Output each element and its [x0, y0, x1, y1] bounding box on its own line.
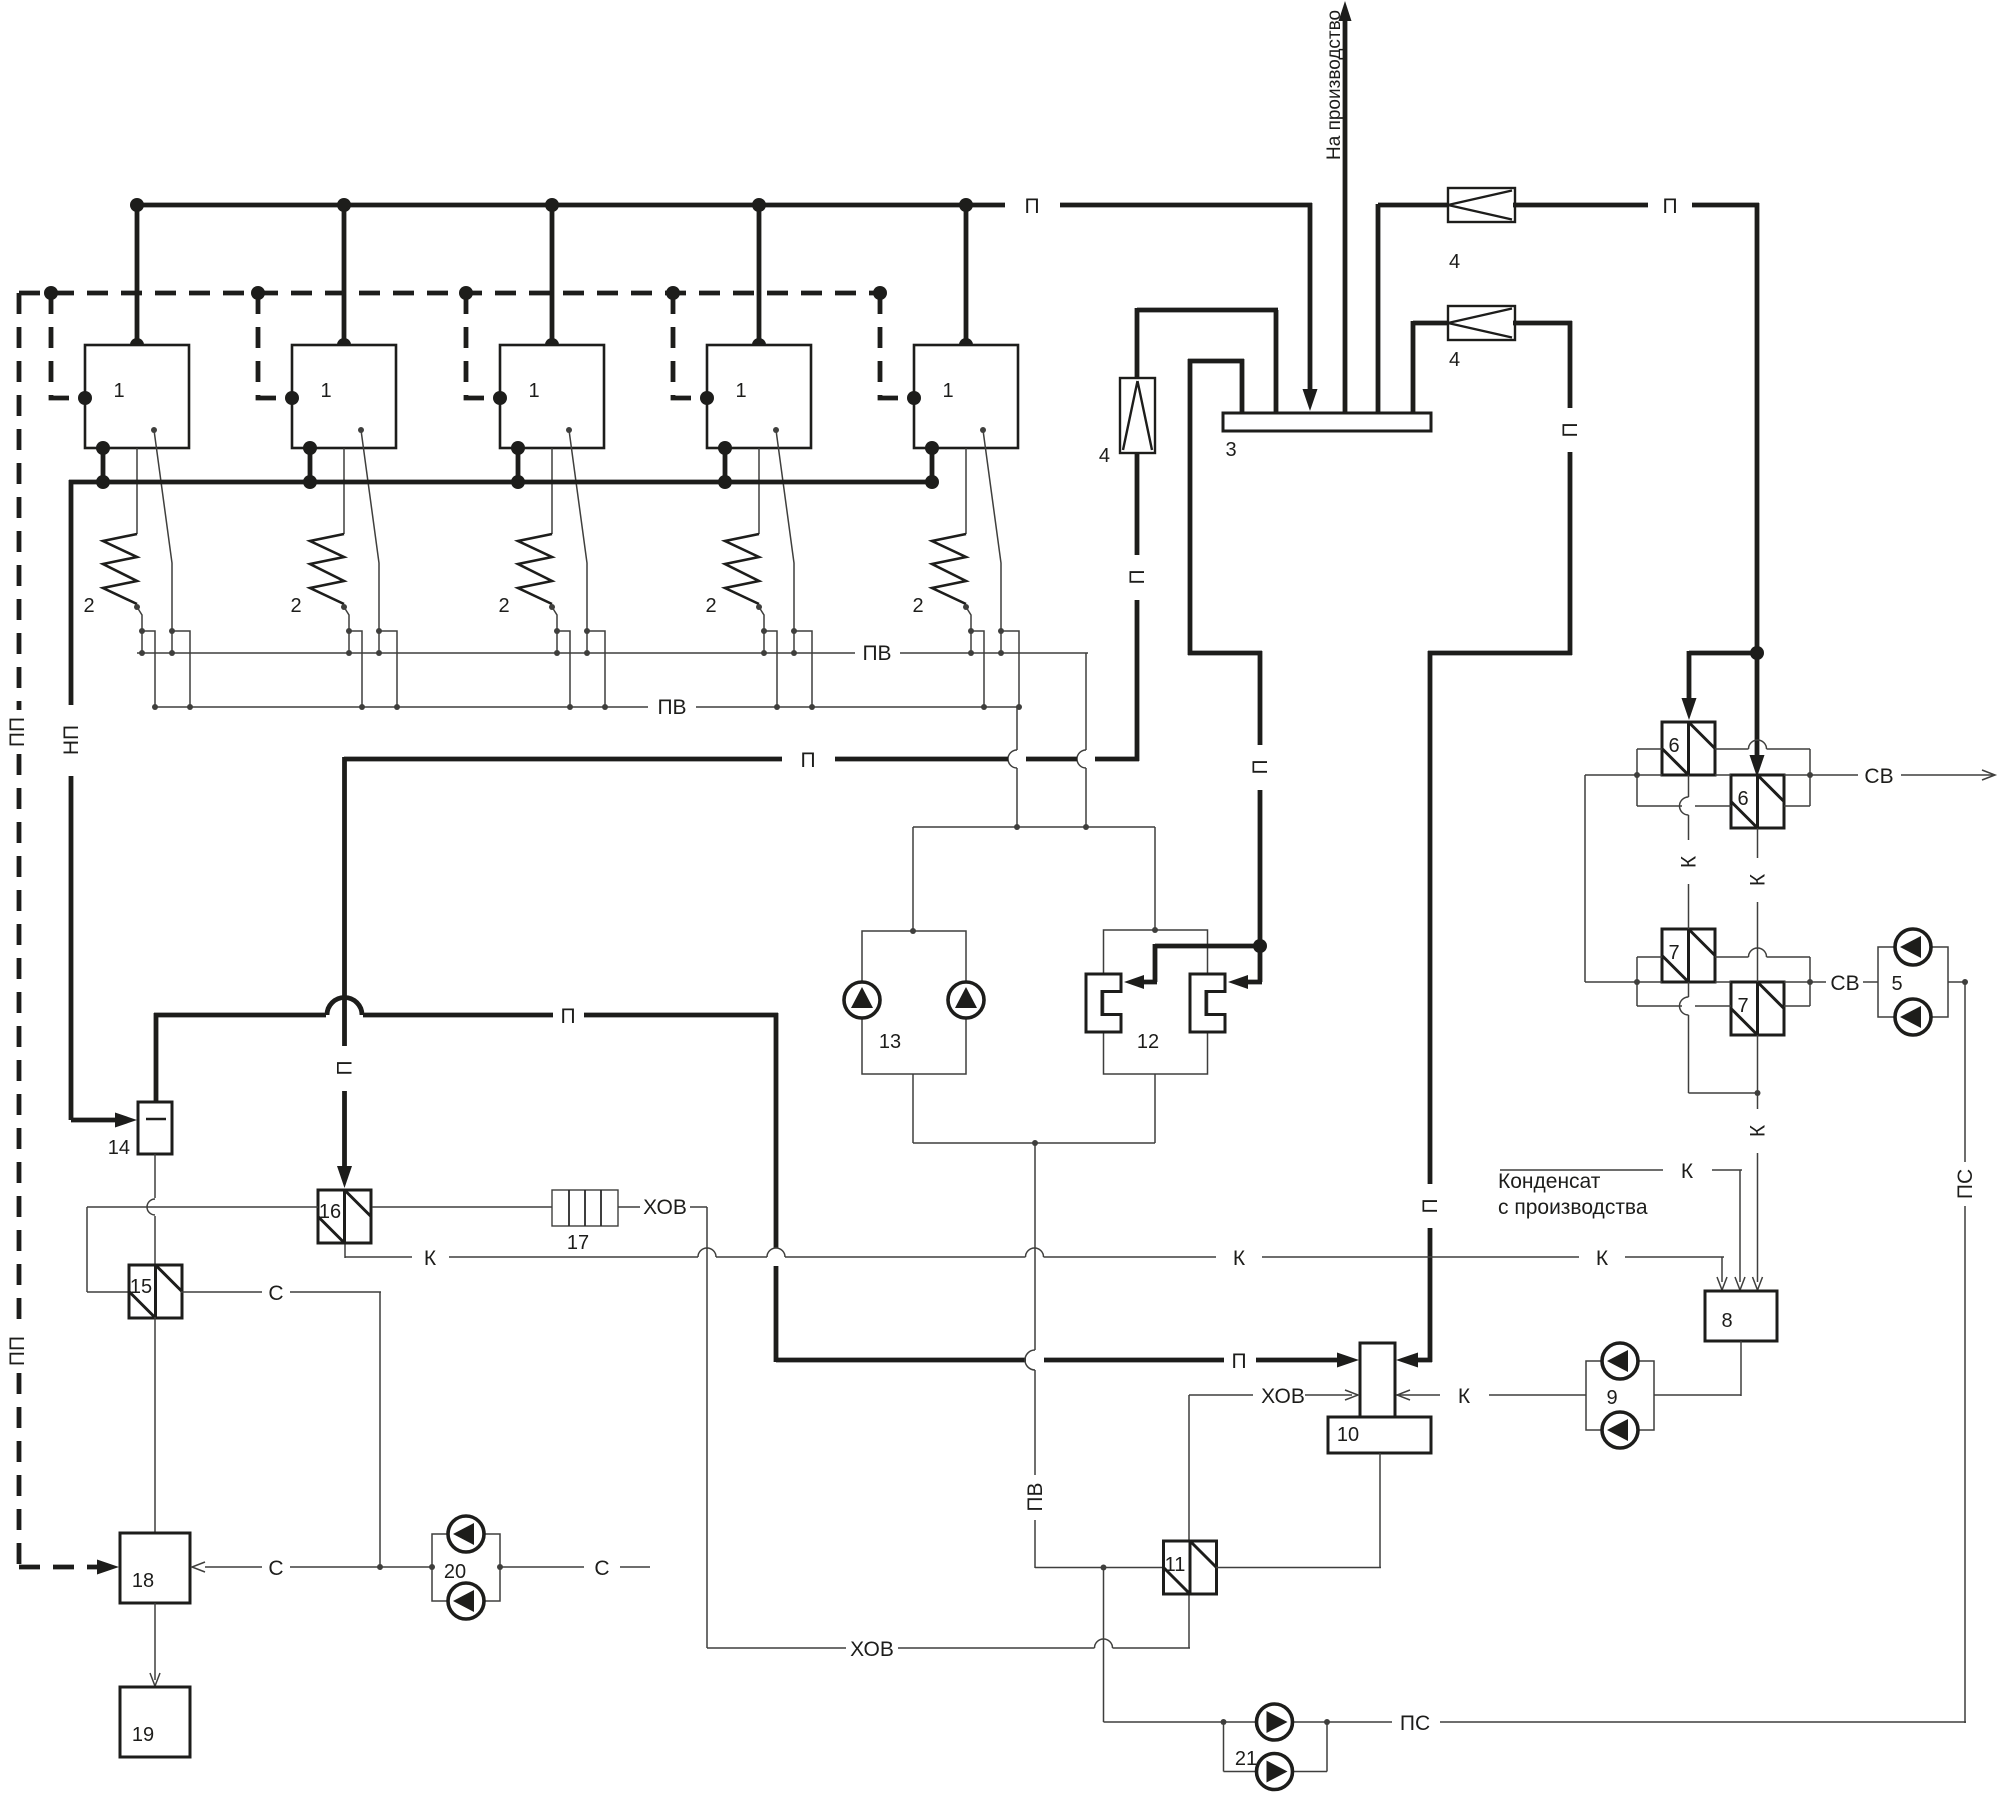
economizer 3 outlet wire	[552, 607, 557, 631]
boiler 3 feed line wire	[551, 448, 553, 534]
dots on PP branch boiler 4	[666, 286, 680, 300]
K main drop wire	[1721, 1257, 1723, 1282]
svg-text:4: 4	[1099, 445, 1110, 467]
boiler 4 cluster nodes	[761, 628, 767, 634]
node P branch	[1750, 646, 1764, 660]
pump 21 upper	[1257, 1704, 1293, 1740]
lower PV drop wire	[1016, 707, 1018, 750]
economizer 4 outlet node	[756, 604, 762, 610]
dots boiler 5 bottom stub	[925, 441, 939, 455]
pump 13 left	[844, 982, 880, 1018]
hop XOV over PS branch	[1095, 1639, 1113, 1648]
deaerator column 10	[1328, 1343, 1431, 1453]
wire 16 condensate to 15	[86, 1207, 88, 1292]
condensate tank 8	[1705, 1291, 1777, 1341]
svg-text:П: П	[1559, 422, 1582, 437]
boiler 1 PP dashed branch wire	[51, 293, 83, 398]
svg-text:На производство: На производство	[1324, 10, 1345, 160]
XOV riser wire	[1189, 1394, 1253, 1396]
blowdown tank 18	[120, 1533, 190, 1603]
svg-text:ПС: ПС	[1400, 1712, 1430, 1735]
junction dots boiler 2 riser	[337, 198, 351, 212]
NP blowdown drop wire	[69, 480, 74, 705]
node C join	[377, 1564, 383, 1570]
row7 left loop wire	[1636, 957, 1638, 1006]
svg-text:П: П	[1231, 1350, 1246, 1373]
hop K over XOV	[698, 1248, 716, 1257]
P wire collector right riser	[1376, 204, 1381, 413]
svg-text:1: 1	[735, 380, 746, 402]
pump 9 lower	[1602, 1412, 1638, 1448]
wire to pump group 13	[912, 827, 914, 931]
K production drop wire	[1739, 1170, 1741, 1282]
C wire into 18	[205, 1566, 262, 1568]
boiler 4 drum line wire	[776, 430, 794, 631]
svg-text:13: 13	[879, 1031, 901, 1053]
C wire east	[500, 1566, 584, 1568]
upper PV header wire	[137, 652, 855, 654]
boiler 5 feed line wire	[965, 448, 967, 534]
svg-text:2: 2	[498, 595, 509, 617]
pump suction header wire	[913, 826, 1155, 828]
svg-text:ПС: ПС	[1954, 1169, 1977, 1199]
economizer 2 outlet node	[341, 604, 347, 610]
svg-text:НП: НП	[60, 725, 83, 755]
boiler 4 feed line wire	[758, 448, 760, 534]
C drop wire	[379, 1292, 381, 1567]
svg-text:П: П	[1126, 569, 1149, 584]
ejector 12 loop wires	[1104, 930, 1208, 1074]
economizer 4 outlet wire	[759, 607, 764, 631]
P wire to right ejector	[1258, 946, 1263, 982]
P wire down to deaerator	[774, 1013, 779, 1248]
heater 11 outlet wire	[1216, 1567, 1381, 1569]
svg-text:7: 7	[1737, 995, 1748, 1017]
valve 4 row1	[1448, 188, 1515, 222]
lower PV header wire	[155, 706, 648, 708]
boiler 1 box	[85, 345, 189, 448]
arrow SV out	[1982, 770, 1995, 780]
PS wire east	[1327, 1721, 1392, 1723]
condensate join wire	[913, 1142, 1155, 1144]
pump 13 loop wires	[862, 931, 966, 1074]
dots on PP branch boiler 2	[251, 286, 265, 300]
dots boiler 4 bottom stub	[718, 441, 732, 455]
nodes row7 mid	[1634, 979, 1640, 985]
arrow to production	[1339, 1, 1352, 21]
deaerator tank outlet wire	[1379, 1453, 1381, 1568]
pump 5 loop wires	[1878, 947, 1948, 1017]
XOV drop wire	[706, 1207, 708, 1648]
svg-text:20: 20	[444, 1561, 466, 1583]
heater 6 right	[1731, 775, 1784, 828]
row6 upper loop wire	[1637, 748, 1662, 750]
pump 20 loop wires	[432, 1534, 500, 1601]
arrow K production into 8	[1735, 1277, 1745, 1290]
tank 8 outlet wire	[1740, 1341, 1742, 1396]
P wire collector left riser	[1240, 359, 1245, 413]
heater 7 left	[1662, 929, 1715, 982]
svg-text:21: 21	[1235, 1748, 1257, 1770]
node ejector loop top	[1152, 927, 1158, 933]
svg-text:2: 2	[912, 595, 923, 617]
pump 13 discharge wire	[912, 1074, 914, 1143]
node drain join	[1755, 1090, 1761, 1096]
svg-text:18: 18	[132, 1570, 154, 1592]
heater 7 left drain wire	[1688, 982, 1690, 997]
svg-text:10: 10	[1337, 1424, 1359, 1446]
boiler 3 PP dashed branch wire	[466, 293, 498, 398]
pump 5 lower	[1895, 999, 1931, 1035]
arrow P into deaerator right	[1396, 1353, 1418, 1368]
boiler 4 steam riser wire	[757, 205, 762, 345]
nodes pump 20	[429, 1564, 435, 1570]
dots boiler 2 bottom stub	[303, 441, 317, 455]
boiler 4 PP dashed branch wire	[673, 293, 705, 398]
svg-text:ПВ: ПВ	[657, 696, 686, 719]
svg-text:ХОВ: ХОВ	[1261, 1385, 1305, 1408]
boiler 3 drum line wire	[569, 430, 587, 631]
boiler 1 feedwater cluster wires	[141, 631, 143, 653]
wire 14 to 15	[154, 1154, 156, 1198]
pump 13 right	[948, 982, 984, 1018]
heater 6 left drain wire	[1688, 775, 1690, 797]
row6 right loop wire	[1809, 749, 1811, 806]
boiler 4 box	[707, 345, 811, 448]
P wire east row2	[1513, 321, 1572, 326]
arrow into heater 16	[337, 1166, 352, 1188]
row6 lower loop wire	[1637, 805, 1682, 807]
node PS branch	[1101, 1565, 1107, 1571]
boiler 2 bottom stub wire	[308, 448, 313, 482]
boiler 2 drum tap node	[358, 427, 364, 433]
boiler 5 drum line wire	[983, 430, 1001, 631]
arrow P into deaerator	[1337, 1353, 1359, 1368]
P wire collector riser row2	[1411, 321, 1416, 413]
svg-text:5: 5	[1891, 973, 1902, 995]
PV wire to heater 11	[1035, 1567, 1164, 1569]
K wire down to tank 8	[1757, 1093, 1759, 1109]
P wire jog left	[1428, 651, 1572, 656]
boiler 5 feedwater cluster wires	[970, 631, 972, 653]
junction dots boiler 1 riser	[130, 198, 144, 212]
P wire east run	[1513, 203, 1648, 208]
arrow into 18	[97, 1560, 119, 1575]
boiler 2 PP dashed branch wire	[258, 293, 290, 398]
economizer 3 outlet node	[549, 604, 555, 610]
P branch wire to left ejector	[1155, 944, 1262, 949]
svg-text:С: С	[594, 1557, 609, 1580]
hop row7 upper over drain	[1749, 948, 1767, 957]
wire 18 to 19	[154, 1603, 156, 1680]
P wire west run	[344, 757, 782, 762]
svg-text:6: 6	[1668, 735, 1679, 757]
boiler 2 cluster nodes	[346, 628, 352, 634]
svg-text:П: П	[560, 1005, 575, 1028]
pump 5 outlet wire	[1948, 981, 1966, 983]
P branch wire to expander 14	[154, 1013, 159, 1102]
dots on PP branch boiler 5	[873, 286, 887, 300]
svg-text:К: К	[1747, 873, 1770, 886]
svg-text:4: 4	[1449, 251, 1460, 273]
svg-text:ПВ: ПВ	[1024, 1482, 1047, 1511]
drain join wire	[1689, 1092, 1758, 1094]
svg-text:С: С	[268, 1282, 283, 1305]
boiler 1 bottom stub wire	[101, 448, 106, 482]
valve 4 vertical	[1120, 378, 1155, 453]
svg-text:ПП: ПП	[6, 1336, 29, 1366]
nodes pump 21	[1221, 1719, 1227, 1725]
svg-text:3: 3	[1225, 439, 1236, 461]
heater 11	[1164, 1541, 1217, 1594]
svg-text:К: К	[1747, 1124, 1770, 1137]
wire 15 to 18	[154, 1317, 156, 1533]
arrow XOV into deaerator	[1345, 1390, 1358, 1400]
svg-text:СВ: СВ	[1864, 765, 1893, 788]
pump 20 lower	[448, 1583, 484, 1619]
P branch wire to heater 6 left	[1689, 651, 1759, 656]
svg-text:12: 12	[1137, 1031, 1159, 1053]
boiler 1 feed line wire	[136, 448, 138, 534]
row6 mid wire	[1585, 774, 1662, 776]
heater 16	[318, 1190, 371, 1243]
dots boiler 3 bottom stub	[511, 441, 525, 455]
PP dashed wire into 18	[19, 1565, 98, 1570]
collector 3	[1223, 413, 1431, 431]
svg-text:2: 2	[705, 595, 716, 617]
PP dashed left drop wire	[17, 293, 22, 710]
pump 20 upper	[448, 1516, 484, 1552]
pump 9 discharge wire	[1489, 1394, 1586, 1396]
economizer 1 outlet wire	[137, 607, 142, 631]
row7 mid wire	[1585, 981, 1662, 983]
svg-text:К: К	[1596, 1247, 1609, 1270]
P wire below valve	[1135, 453, 1140, 555]
boiler 1 drum tap node	[151, 427, 157, 433]
svg-text:К: К	[1681, 1160, 1694, 1183]
P header to collector branch wire	[1137, 308, 1278, 313]
arrow into left ejector	[1124, 975, 1144, 989]
P wire collector left jog	[1188, 359, 1244, 364]
svg-text:П: П	[1024, 195, 1039, 218]
row6 to row7 link wire	[1584, 775, 1586, 982]
heater 6 right drain wire	[1757, 828, 1759, 858]
XOV bottom wire	[707, 1647, 846, 1649]
P wire down left of collector	[1188, 359, 1193, 655]
hop row6 upper over P	[1749, 740, 1767, 749]
to-production riser wire	[1343, 12, 1348, 413]
svg-text:15: 15	[130, 1276, 152, 1298]
steam header P wire	[132, 203, 1005, 208]
expander 14	[138, 1102, 172, 1154]
pump 9 upper	[1602, 1343, 1638, 1379]
boiler 2 steam riser wire	[342, 205, 347, 345]
PS return wire down	[1964, 982, 1966, 1162]
economizer 2 boiler 1	[103, 534, 137, 604]
hop PV over P line	[1025, 1350, 1035, 1370]
svg-text:П: П	[334, 1060, 357, 1075]
SV outlet wire	[1901, 774, 1994, 776]
valve 4 row2	[1448, 306, 1515, 340]
boiler 5 bottom stub wire	[930, 448, 935, 482]
P wire down east	[1755, 203, 1760, 653]
pump 21 bypass wires	[1223, 1722, 1225, 1772]
svg-text:8: 8	[1721, 1310, 1732, 1332]
svg-text:6: 6	[1737, 788, 1748, 810]
P wire down to deaerator right	[1428, 651, 1433, 1184]
svg-text:19: 19	[132, 1724, 154, 1746]
svg-text:ПВ: ПВ	[862, 642, 891, 665]
arrow K into 8	[1753, 1277, 1763, 1290]
economizer 2 boiler 2	[310, 534, 344, 604]
hop of PV drop over P line	[1008, 750, 1017, 768]
heater 6 left	[1662, 722, 1715, 775]
svg-text:14: 14	[108, 1137, 130, 1159]
boiler 3 bottom stub wire	[516, 448, 521, 482]
nodes on suction header	[1014, 824, 1020, 830]
junction dots boiler 4 riser	[752, 198, 766, 212]
pump 5 upper	[1895, 929, 1931, 965]
svg-text:16: 16	[319, 1201, 341, 1223]
XOV wire into deaerator	[1305, 1394, 1352, 1396]
boiler 4 bottom stub wire	[723, 448, 728, 482]
heater 7 right drain wire	[1757, 1035, 1759, 1093]
svg-text:11: 11	[1165, 1554, 1186, 1576]
svg-text:2: 2	[83, 595, 94, 617]
boiler 2 drum line wire	[361, 430, 379, 631]
blowdown PP dashed header wire	[19, 291, 880, 296]
K production wire	[1500, 1169, 1663, 1171]
arrow into collector	[1303, 389, 1318, 411]
svg-text:1: 1	[320, 380, 331, 402]
svg-text:П: П	[1419, 1198, 1442, 1213]
boiler 2 feed line wire	[343, 448, 345, 534]
P wire into deaerator right	[1408, 1358, 1432, 1363]
dots on PP branch boiler 3	[459, 286, 473, 300]
node PV takeoff	[1032, 1140, 1038, 1146]
hop K over P	[767, 1248, 785, 1257]
economizer 2 boiler 4	[725, 534, 759, 604]
P wire to deaerator head	[776, 1358, 1026, 1363]
economizer 2 boiler 5	[932, 534, 966, 604]
hop of P line over P riser	[327, 998, 362, 1016]
heater 7 right	[1731, 982, 1784, 1035]
arrow into 19	[150, 1673, 160, 1686]
economizer 5 outlet node	[963, 604, 969, 610]
pump 21 lower	[1257, 1754, 1293, 1790]
junction dots boiler 5 riser	[959, 198, 973, 212]
heater 16 water wires	[87, 1206, 318, 1208]
P wire down to heater 16	[342, 757, 347, 1046]
svg-text:ХОВ: ХОВ	[643, 1196, 687, 1219]
svg-text:с производства: с производства	[1498, 1196, 1648, 1219]
wire SV to pump 5	[1863, 981, 1878, 983]
boiler 2 feedwater cluster wires	[348, 631, 350, 653]
svg-text:К: К	[424, 1247, 437, 1270]
svg-text:П: П	[1662, 195, 1677, 218]
boiler 5 cluster nodes	[968, 628, 974, 634]
arrow K into deaerator	[1397, 1390, 1410, 1400]
boiler 3 steam riser wire	[550, 205, 555, 345]
svg-text:7: 7	[1668, 942, 1679, 964]
P wire valve riser	[1135, 308, 1140, 378]
svg-text:Конденсат: Конденсат	[1498, 1170, 1601, 1193]
arrow C into 18	[192, 1562, 205, 1572]
upper PV drop wire	[1085, 653, 1087, 750]
svg-text:9: 9	[1606, 1387, 1617, 1409]
steam header corner wire down to collector	[1308, 203, 1313, 392]
row7 upper loop wire	[1637, 956, 1662, 958]
row7 lower loop wire	[1637, 1005, 1682, 1007]
hop K over PV	[1026, 1248, 1044, 1257]
economizer 2 outlet wire	[344, 607, 349, 631]
P wire down row2	[1568, 321, 1573, 408]
K main wire	[345, 1256, 412, 1258]
P wire into heater 6 right	[1755, 653, 1760, 757]
svg-text:2: 2	[290, 595, 301, 617]
nodes row6 mid	[1634, 772, 1640, 778]
ejector 12 left	[1086, 974, 1121, 1032]
dots boiler 1 bottom stub	[96, 441, 110, 455]
svg-text:С: С	[268, 1557, 283, 1580]
P wire to valve row2	[1413, 321, 1450, 326]
boiler 1 cluster nodes	[139, 628, 145, 634]
saturated steam bus wire	[69, 480, 935, 485]
hop 14-15 wire over drain	[147, 1199, 155, 1215]
P wire to valve row1	[1378, 203, 1450, 208]
economizer 5 outlet wire	[966, 607, 971, 631]
row6 left loop wire	[1636, 749, 1638, 806]
boiler 3 drum tap node	[566, 427, 572, 433]
P wire down to ejectors	[1258, 651, 1263, 745]
arrow into heater 6 right	[1750, 755, 1765, 777]
boiler 4 drum tap node	[773, 427, 779, 433]
P wire jog to ejector drop	[1188, 651, 1262, 656]
heater 16 drain wire	[344, 1242, 346, 1258]
C wire from 15	[181, 1291, 262, 1293]
arrow into right ejector	[1228, 975, 1248, 989]
node PS takeoff	[1962, 979, 1968, 985]
svg-text:ПП: ПП	[6, 717, 29, 747]
svg-text:П: П	[800, 749, 815, 772]
node P ejector branch	[1253, 939, 1267, 953]
wire to ejector group 12	[1154, 827, 1156, 930]
heater 15	[129, 1265, 182, 1318]
economizer 2 boiler 3	[518, 534, 552, 604]
ejector group outlet wire	[1154, 1074, 1156, 1143]
hop drain over row6 lower	[1680, 797, 1689, 815]
arrow into 14	[115, 1113, 137, 1128]
PS wire to pumps 21	[1104, 1721, 1225, 1723]
drain tank 19	[120, 1687, 190, 1757]
svg-text:1: 1	[113, 380, 124, 402]
PS branch wire down	[1103, 1568, 1105, 1723]
ejector 12 right	[1190, 974, 1225, 1032]
pump 9 loop wires	[1586, 1361, 1654, 1430]
PV wire down	[1034, 1143, 1036, 1350]
node pump 13 top	[910, 928, 916, 934]
boiler 2 box	[292, 345, 396, 448]
svg-text:17: 17	[567, 1232, 589, 1254]
filter 17	[552, 1190, 618, 1226]
svg-text:К: К	[1678, 855, 1701, 868]
boiler 3 box	[500, 345, 604, 448]
svg-text:1: 1	[528, 380, 539, 402]
arrow K main into 8	[1717, 1277, 1727, 1290]
boiler 4 feedwater cluster wires	[763, 631, 765, 653]
svg-text:4: 4	[1449, 349, 1460, 371]
svg-text:К: К	[1233, 1247, 1246, 1270]
